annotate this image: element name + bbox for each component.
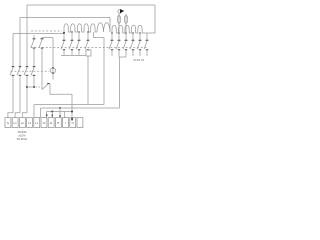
wire: return C drop at x=46.5 [46,112,48,118]
wire: phase jog to terminal 3 [22,113,27,118]
breaker QS1 handle [50,68,55,73]
wire: L1 right drop to transformer secondary [143,5,155,33]
selector switch S1 linkage (main, dashed y=47.5) [31,47,149,49]
wire: control return B (y=108) [41,107,120,109]
selector contact S2-f (x=147) [144,33,148,56]
wire: phase jog to terminal 2 [15,113,20,118]
breaker QS1 pole 4 (x=34) [31,53,35,87]
svg-text:N: N [72,121,74,125]
wire: return C tee drop x=52.3 [51,112,53,118]
wire: return C tee drop x=64.7 [64,112,66,118]
wire: L2 drop into transformer primary right end [109,18,111,33]
switch: control cut-out contact [42,84,50,90]
overload element F3 (box) [86,50,91,56]
label: mains supply text [17,130,28,141]
svg-text:L3: L3 [28,121,32,125]
svg-text:I: I [65,121,66,125]
selector contact S2-d (x=133) [130,33,134,56]
selector contact S2-a (x=112) [109,33,113,56]
wire: control return C (y=111.5) [47,111,73,113]
wire: selector output bus (y=55.5) [61,55,86,57]
winding tap junction nubs [71,31,140,34]
wire: phase L2 vertical [19,18,21,67]
transformer T1 secondary winding [112,25,143,33]
selector contact S2-e (x=140) [137,33,141,56]
svg-text:N: N [7,121,9,125]
wire: phase bus L2 (y=17.5) [20,17,110,19]
breaker QS1 pole 3 (x=27) [24,67,28,113]
selector contact S1-d (x=72) [69,32,73,56]
wire: return B drop at x=40.5 [40,108,42,118]
wire: selector output down x=88 [87,56,89,105]
wire: phase jog to terminal 1 [8,113,13,118]
svg-text:12: 12 [42,121,46,125]
svg-text:50-60Hz: 50-60Hz [17,137,28,141]
transformer T1 primary winding large turns [97,23,110,32]
selector contact S1-e (x=79) [76,32,80,56]
selector contact S1-c (x=64) [61,35,65,55]
wire: primary tap x=93.5 to x=104 [94,32,105,38]
wire: handle shaft vertical x=53 [52,38,54,80]
wire: control tap to terminal t10 [50,84,72,94]
terminal block X1 [5,118,83,128]
wire: return B tee drop x=60 [59,108,61,118]
terminal labels [7,121,74,125]
wire: phase L1 vertical [26,5,28,67]
wire: phase bus L3 (y=33.5) [13,33,64,35]
wire: contact S1-b top to handle shaft [42,37,53,39]
selector contact S1-b (x=42) [39,38,43,90]
wire: join S2-b and S2-c bottoms [119,56,126,58]
svg-text:L2: L2 [21,121,25,125]
svg-text:11: 11 [50,121,53,125]
selector contact S1-f (x=88) [85,32,89,50]
svg-text:L1: L1 [35,121,39,125]
transformer T1 primary winding [64,24,97,32]
wire: phase bus L1 top (y=5) [27,4,155,6]
selector contact S2-c (x=126) [123,33,127,57]
wire: phase L3 vertical [12,34,14,67]
wire: secondary output down x=119.5 [119,57,121,108]
svg-text:L1: L1 [13,121,17,125]
fuse F2 [124,14,127,33]
selector contact S1-a (x=34) [31,35,35,53]
selector contact S2-b (x=119) [116,33,120,57]
fuse F1 [117,13,120,33]
breaker QS1 linkage (dashed y=71.3) [11,70,50,72]
breaker QS1 pole 2 (x=20) [17,67,21,113]
wire: control return A (y=104.6) [34,104,104,106]
node F: tee of t10 wire on return C [71,111,73,113]
node B: control tap on L3 [26,86,28,88]
wire: control feed x=104 down [103,38,105,105]
wire: t10 drop x=72 [71,94,73,117]
breaker QS1 pole 1 (x=13) [10,67,14,113]
wire: return A drop at x=34 [33,105,35,118]
terminal connector nubs [46,114,73,120]
indicator: selector arrow knob [118,10,122,14]
svg-text:B: B [57,121,59,125]
node A: junction T1 primary left end / bus L3 [63,32,65,35]
wire: control tap horizontal [27,86,34,88]
selector switch S1 linkage (upper, dashed) [31,30,62,32]
node E: tee on return C [51,111,53,113]
svg-text:40/98 1B: 40/98 1B [133,58,144,62]
node D: tee on return B [59,107,61,109]
node C: junction pole4 / control tap [33,86,35,88]
